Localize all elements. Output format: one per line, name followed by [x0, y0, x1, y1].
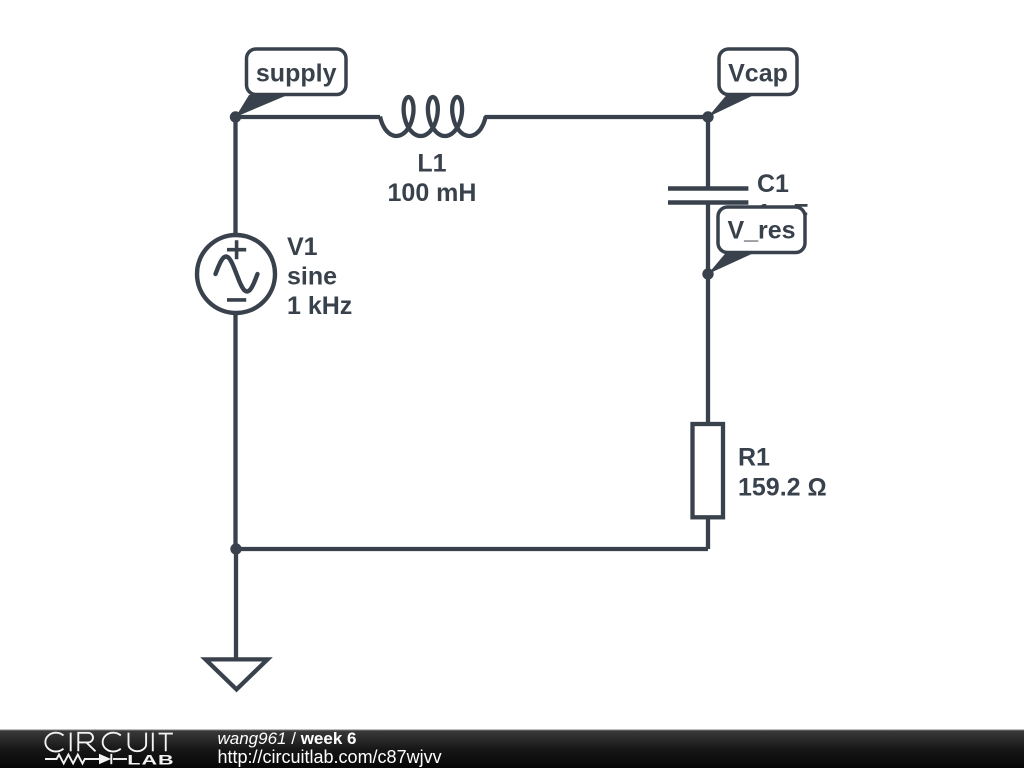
voltage source V1 sine symbol — [216, 257, 258, 292]
svg-text:LAB: LAB — [127, 752, 174, 767]
resistor R1 body — [693, 424, 724, 517]
node supply flag tail — [236, 95, 288, 117]
node V_res dot — [702, 268, 713, 279]
node Vcap dot — [702, 111, 713, 122]
node V_res flag text — [727, 217, 795, 245]
footer url line — [218, 747, 442, 767]
CircuitLab logo diode triangle — [99, 754, 111, 764]
resistor R1 name label — [738, 444, 770, 472]
node Vcap flag tail — [708, 95, 754, 117]
voltage source V1 type label — [287, 263, 337, 291]
wire left vertical (supply node to V1 top) — [233, 117, 237, 235]
capacitor C1 value label (mostly hidden behind V_res flag) — [757, 200, 808, 228]
svg-text:http://circuitlab.com/c87wjvv: http://circuitlab.com/c87wjvv — [218, 747, 442, 767]
wire top-left segment (supply node to L1) — [236, 115, 381, 119]
capacitor C1 name label — [757, 170, 789, 198]
svg-text:C1: C1 — [757, 170, 789, 198]
svg-text:159.2 Ω: 159.2 Ω — [738, 474, 827, 502]
junction node (bottom rail / V1 / ground) — [230, 543, 241, 554]
svg-text:V1: V1 — [287, 233, 318, 261]
CircuitLab logo CIRCUIT wordmark — [45, 733, 173, 752]
wire right vertical (Vcap node to C1 top plate) — [706, 117, 710, 189]
node V_res flag bubble — [718, 207, 805, 253]
svg-text:V_res: V_res — [727, 217, 795, 245]
footer author/title line — [218, 729, 357, 748]
capacitor C1 top plate — [668, 186, 748, 191]
node supply dot — [230, 111, 241, 122]
inductor L1 coil — [380, 97, 486, 136]
svg-text:sine: sine — [287, 263, 337, 291]
CircuitLab logo resistor-diode symbol — [45, 754, 127, 764]
wire right vertical (R1 bottom to bottom rail) — [706, 517, 710, 549]
node V_res flag tail — [708, 252, 756, 274]
wire ground stub — [234, 549, 238, 659]
ground symbol — [206, 659, 268, 689]
inductor L1 value label — [388, 179, 477, 207]
svg-text:1 kHz: 1 kHz — [287, 292, 352, 320]
CircuitLab logo LAB text — [127, 752, 174, 767]
svg-text:Vcap: Vcap — [728, 60, 788, 88]
wire top-right segment (L1 to Vcap node) — [485, 115, 709, 119]
node Vcap flag text — [728, 60, 788, 88]
voltage source V1 minus sign — [227, 298, 246, 302]
svg-text:100 mH: 100 mH — [388, 179, 477, 207]
voltage source V1 circle — [197, 235, 275, 313]
resistor R1 value label — [738, 474, 827, 502]
node supply flag bubble — [247, 49, 347, 95]
svg-text:supply: supply — [256, 60, 337, 88]
wire right vertical (V_res node to R1 top) — [706, 274, 710, 424]
node Vcap flag bubble — [719, 49, 797, 95]
inductor L1 name label — [417, 150, 446, 178]
voltage source V1 plus sign — [227, 240, 246, 259]
wire left vertical (V1 bottom to ground junction) — [233, 313, 237, 549]
wire bottom rail — [236, 547, 708, 551]
svg-text:R1: R1 — [738, 444, 770, 472]
node supply flag text — [256, 60, 337, 88]
voltage source V1 name label — [287, 233, 318, 261]
svg-text:wang961 / week 6: wang961 / week 6 — [218, 729, 357, 748]
capacitor C1 bottom plate — [668, 200, 748, 205]
voltage source V1 frequency label — [287, 292, 352, 320]
wire right vertical (C1 bottom plate to V_res node) — [706, 203, 710, 275]
svg-text:L1: L1 — [417, 150, 446, 178]
